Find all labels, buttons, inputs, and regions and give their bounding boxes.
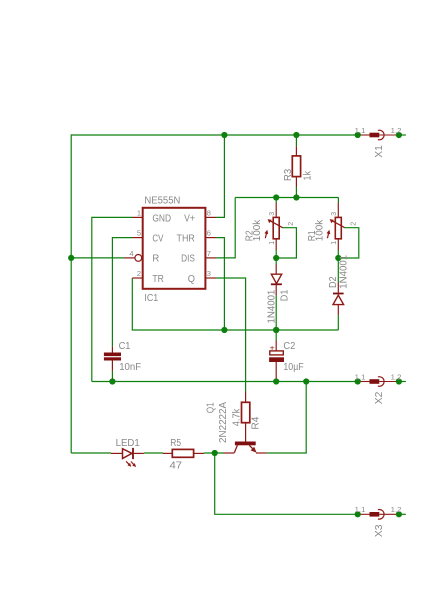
R2 pin number 2	[288, 222, 295, 226]
label D2 value 1N4001	[338, 254, 349, 288]
label X1	[374, 145, 385, 158]
X3 pad 1.2 dot	[396, 511, 402, 517]
X1 pad 1.2 dot	[396, 132, 402, 138]
svg-text:1N4001: 1N4001	[266, 289, 277, 323]
svg-text:1: 1	[331, 241, 338, 245]
svg-text:R: R	[152, 254, 159, 265]
label R4 value 4.7k	[232, 408, 243, 427]
label R4	[251, 416, 262, 429]
wire R2 bottom stub	[275, 250, 277, 258]
X2 pad 1.2 dot	[396, 378, 402, 384]
junction dot collector node	[212, 450, 218, 456]
IC1 pin numbers	[129, 208, 211, 278]
trimmer R1 body and wiper	[327, 202, 345, 250]
R1 pin number 1	[331, 241, 338, 245]
wire LED to R5	[144, 452, 163, 454]
junction dot C2 bottom	[273, 378, 279, 384]
wire R5 to Q1 collector node	[204, 452, 224, 454]
svg-text:D1: D1	[280, 289, 291, 301]
svg-text:IC1: IC1	[144, 293, 158, 304]
wire CV pin5 to C1	[112, 238, 132, 347]
label D2	[328, 276, 339, 288]
wire DIS pin7 up	[216, 198, 235, 258]
svg-text:100k: 100k	[315, 219, 326, 241]
svg-text:10nF: 10nF	[119, 362, 141, 373]
R2 pin number 1	[269, 241, 276, 245]
label 1k	[302, 170, 313, 180]
svg-text:R4: R4	[251, 416, 262, 429]
R1 pin number 3	[331, 212, 338, 216]
resistor R3 pins	[295, 146, 297, 187]
label C2	[283, 341, 295, 352]
svg-text:1.1: 1.1	[355, 128, 366, 135]
wire V+ pin8 up to rail	[216, 135, 224, 217]
label R1	[307, 230, 318, 241]
wire R1 wiper to pin1	[338, 228, 359, 258]
resistor R5 pins	[163, 452, 204, 454]
wire LED row	[71, 452, 111, 454]
svg-text:2: 2	[137, 269, 141, 278]
svg-text:DIS: DIS	[181, 254, 195, 265]
X2 pin label 1.2	[391, 374, 402, 381]
svg-text:R5: R5	[170, 438, 181, 449]
svg-text:C2: C2	[283, 341, 295, 352]
wire R2 top stub	[275, 198, 277, 203]
label C2 value 10uF	[283, 362, 303, 373]
diode D2 1N4001	[333, 258, 344, 330]
label C1 value 10nF	[119, 362, 141, 373]
label Q1	[206, 402, 217, 413]
junction dot D1 bottom	[273, 327, 279, 333]
svg-text:CV: CV	[152, 234, 163, 245]
label IC1	[144, 293, 158, 304]
svg-text:X3: X3	[374, 524, 385, 537]
IC U1 NE555 body and pins	[124, 208, 216, 289]
svg-text:NE555N: NE555N	[144, 196, 180, 207]
resistor R3 body	[292, 156, 300, 177]
X1 pin label 1.2	[391, 128, 402, 135]
junction dot timing net R3	[293, 194, 299, 200]
junction dot C1 bottom	[109, 378, 115, 384]
svg-text:47: 47	[170, 460, 183, 471]
X1 pad 1.1 dot	[355, 132, 361, 138]
X3 pad 1.1 dot	[355, 511, 361, 517]
wire GND pin1 to bottom rail	[92, 217, 133, 381]
wire collector node down to X3	[215, 453, 358, 514]
junction dot emitter on GND rail	[303, 378, 309, 384]
svg-text:3: 3	[269, 212, 276, 216]
label R5	[170, 438, 181, 449]
wire emitter to GND rail	[267, 382, 306, 454]
label R3	[283, 168, 294, 181]
svg-text:7: 7	[207, 249, 211, 258]
svg-text:X2: X2	[374, 391, 385, 404]
junction dot R2 top	[273, 194, 279, 200]
X2 pad 1.1 dot	[355, 378, 361, 384]
wire timing top net	[235, 197, 338, 199]
svg-text:1.2: 1.2	[391, 374, 402, 381]
svg-text:1.2: 1.2	[391, 507, 402, 514]
label R2	[244, 230, 255, 241]
svg-text:GND: GND	[152, 213, 171, 224]
junction dot R3 top	[293, 132, 299, 138]
svg-text:2: 2	[288, 222, 295, 226]
junction dot left rail / R pin	[68, 255, 74, 261]
X2 pin label 1.1	[355, 374, 366, 381]
transistor Q1 2N2222A	[224, 442, 267, 454]
X3 pin label 1.1	[355, 507, 366, 514]
junction dot R1 bottom	[335, 255, 341, 261]
X1 pin label 1.1	[355, 128, 366, 135]
svg-text:1k: 1k	[302, 170, 313, 180]
resistor R4 pins	[245, 392, 247, 442]
label Q1 value 2N2222A	[218, 402, 229, 443]
svg-text:LED1: LED1	[116, 438, 141, 449]
svg-text:R3: R3	[283, 168, 294, 181]
junction dot V+ on top rail	[221, 132, 227, 138]
connector X3 jumper symbol	[358, 510, 406, 520]
junction dot R2 bottom	[273, 255, 279, 261]
label R5 value 47	[170, 460, 183, 471]
label X3	[374, 524, 385, 537]
svg-text:3: 3	[331, 212, 338, 216]
svg-text:1: 1	[269, 241, 276, 245]
svg-text:+: +	[270, 342, 275, 352]
svg-text:4.7k: 4.7k	[232, 408, 243, 427]
wire R3 top stub	[295, 135, 297, 146]
label C1	[119, 341, 131, 352]
svg-text:TR: TR	[152, 274, 164, 285]
svg-text:1N4001: 1N4001	[338, 254, 349, 288]
junction dot THR on TR wire	[221, 327, 227, 333]
wire GND bottom rail	[92, 381, 358, 383]
svg-text:3: 3	[207, 269, 211, 278]
svg-text:1.1: 1.1	[355, 374, 366, 381]
label X2	[374, 391, 385, 404]
svg-text:THR: THR	[177, 234, 195, 245]
svg-text:1.2: 1.2	[391, 128, 402, 135]
X3 pin label 1.2	[391, 507, 402, 514]
label LED1	[116, 438, 141, 449]
svg-text:4: 4	[129, 249, 133, 258]
svg-text:X1: X1	[374, 145, 385, 158]
svg-text:10µF: 10µF	[283, 362, 303, 373]
wire VCC top rail	[71, 134, 358, 136]
wire R1 bottom stub	[337, 250, 339, 258]
svg-text:5: 5	[137, 229, 141, 238]
resistor R4 body	[242, 402, 250, 422]
wire Q pin3 down to R4	[216, 278, 246, 392]
svg-text:1.1: 1.1	[355, 507, 366, 514]
wire left rail (reset feed)	[70, 134, 72, 453]
wire R3 bottom stub	[295, 187, 297, 198]
svg-text:C1: C1	[119, 341, 131, 352]
label R2 100k	[252, 219, 263, 241]
svg-text:100k: 100k	[252, 219, 263, 241]
svg-text:6: 6	[207, 229, 211, 238]
label D1 value 1N4001	[266, 289, 277, 323]
LED LED1	[111, 448, 144, 467]
R1 pin number 2	[350, 222, 357, 226]
wire TR pin2 down-right	[132, 278, 338, 330]
connector X1 jumper symbol	[358, 130, 406, 140]
wire R1 top corner	[337, 198, 339, 203]
capacitor C1	[104, 346, 121, 381]
wire R2 wiper to pin1	[276, 228, 296, 258]
wire IC1 R pin net	[71, 257, 124, 259]
trimmer R2 body and wiper	[264, 202, 282, 250]
svg-text:2: 2	[350, 222, 357, 226]
svg-text:V+: V+	[184, 213, 195, 224]
svg-text:1: 1	[137, 208, 141, 217]
wire THR pin6 down	[216, 238, 224, 330]
IC1 pin names	[152, 213, 195, 285]
svg-text:Q1: Q1	[206, 402, 217, 413]
R2 pin number 3	[269, 212, 276, 216]
resistor R5 body	[172, 449, 193, 457]
polarized capacitor C2	[269, 330, 284, 382]
label D1	[280, 289, 291, 301]
junction dot C2 top	[273, 327, 279, 333]
label NE555N	[144, 196, 180, 207]
svg-text:8: 8	[207, 208, 211, 217]
label R1 100k	[315, 219, 326, 241]
diode D1 1N4001	[271, 258, 282, 330]
svg-text:Q: Q	[188, 274, 195, 285]
connector X2 jumper symbol	[358, 377, 406, 387]
svg-text:2N2222A: 2N2222A	[218, 402, 229, 443]
